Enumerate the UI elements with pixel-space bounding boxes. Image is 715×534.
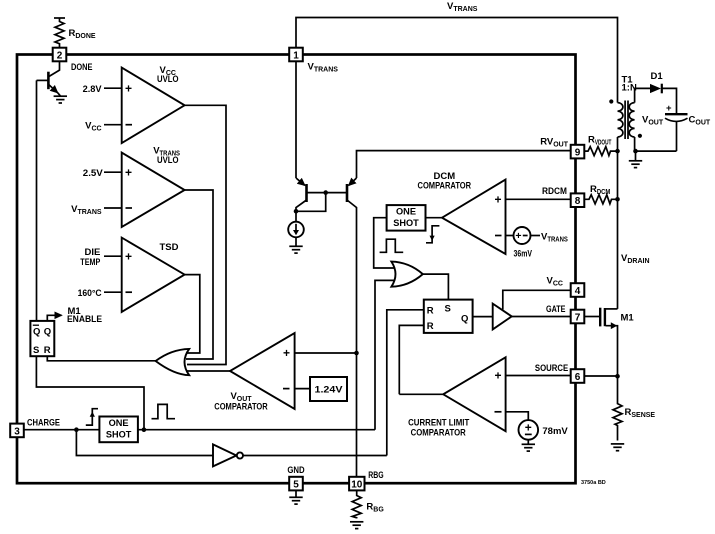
transistor Q3 (right PNP) — [346, 184, 349, 202]
inverter U11 — [213, 444, 236, 466]
ground under RBG — [350, 522, 363, 529]
wire VTRANS UVLO output — [185, 190, 213, 359]
svg-text:VCC: VCC — [547, 276, 563, 288]
wire latch2 R2 input from current limit comparator — [399, 325, 424, 394]
svg-text:Q: Q — [44, 327, 51, 338]
falling-edge symbol — [426, 226, 439, 243]
wire one-shot output to OR2 riser — [138, 429, 375, 431]
svg-text:S: S — [33, 345, 39, 356]
wire 160C stub — [104, 291, 123, 293]
wire VCC stub — [104, 124, 123, 126]
wire latch Q to M1 ENABLE arrow — [47, 315, 61, 321]
wire VCC UVLO output — [185, 105, 226, 364]
wire secondary top to D1 — [635, 88, 650, 102]
latch U8 gate-drive SR latch — [424, 300, 473, 333]
wire pin2 to Q1 collector — [49, 61, 60, 76]
svg-text:ONE: ONE — [109, 418, 129, 429]
svg-text:VOUT: VOUT — [642, 115, 664, 127]
ground secondary — [629, 161, 642, 168]
svg-text:+: + — [125, 165, 132, 179]
svg-text:3750a BD: 3750a BD — [581, 480, 606, 486]
wire CL + input to pin6 — [503, 375, 571, 377]
svg-text:160°C: 160°C — [78, 288, 102, 299]
wire driver VCC tap to pin4 — [503, 290, 571, 309]
ground under RSENSE — [611, 444, 624, 451]
svg-text:10: 10 — [351, 480, 363, 491]
transformer T1 secondary winding — [629, 103, 634, 137]
svg-text:9: 9 — [575, 148, 581, 159]
pin 7 — [571, 310, 585, 324]
svg-text:RBG: RBG — [368, 470, 383, 481]
svg-text:+: + — [515, 230, 521, 242]
svg-text:RBG: RBG — [366, 502, 384, 514]
svg-text:8: 8 — [575, 196, 581, 207]
svg-text:ENABLE: ENABLE — [67, 314, 102, 325]
svg-text:5: 5 — [293, 480, 299, 491]
resistor RDCM — [585, 195, 618, 204]
svg-text:VDRAIN: VDRAIN — [621, 253, 650, 265]
T1 phase dot primary — [609, 99, 613, 103]
svg-text:+: + — [495, 368, 502, 382]
transistor Q2 (left PNP) — [305, 184, 308, 202]
wire TSD output — [185, 275, 200, 353]
wire VOUT comp - input to 1.24V — [293, 388, 310, 390]
transistor Q1 DONE (NPN) — [47, 72, 50, 90]
svg-text:36mV: 36mV — [514, 249, 533, 260]
svg-text:M1: M1 — [621, 313, 635, 324]
op-amp U2 VTRANS UVLO comparator — [122, 153, 185, 227]
svg-text:1.24V: 1.24V — [315, 385, 344, 396]
ground under 78mV — [522, 444, 535, 451]
junction VOUT comp tap on Q3 collector line — [354, 351, 359, 356]
svg-text:ONE: ONE — [396, 207, 416, 218]
svg-text:+: + — [125, 81, 132, 95]
wire OR1 output to latch R — [47, 356, 155, 361]
resistor RVDOUT — [585, 147, 618, 156]
ground under Q1 — [54, 96, 67, 103]
pin 3 — [10, 424, 24, 438]
rising-edge symbol — [86, 409, 98, 425]
pin 2 — [53, 48, 67, 62]
voltage source V2 78mV — [519, 420, 539, 440]
or-gate G2 (2-input, points right) — [391, 262, 422, 287]
svg-text:TSD: TSD — [160, 242, 179, 253]
wire DIE TEMP stub — [104, 255, 123, 257]
op-amp U1 VCC UVLO comparator — [122, 68, 185, 144]
wire DCM one-shot output to OR2 top input — [374, 218, 398, 268]
pin 8 — [571, 193, 585, 207]
wire latch S input from charge one-shot — [36, 356, 144, 430]
wire VTRANS stub — [104, 207, 123, 209]
svg-text:SHOT: SHOT — [106, 429, 132, 440]
svg-text:2.8V: 2.8V — [83, 84, 103, 95]
resistor RBG — [352, 490, 361, 518]
wire VOUT comp output to OR1 — [186, 370, 230, 372]
wire DCM - input to 36mV source — [503, 235, 514, 237]
svg-text:R: R — [44, 345, 51, 356]
svg-text:1: 1 — [293, 51, 299, 62]
buffer U9 gate driver — [493, 304, 512, 330]
reference box 1.24V — [310, 377, 347, 401]
pin 9 — [571, 145, 585, 159]
svg-text:CHARGE: CHARGE — [27, 417, 60, 428]
svg-text:SHOT: SHOT — [393, 218, 419, 229]
pulse symbol CHARGE — [152, 404, 176, 418]
transistor M1 (NMOS) — [585, 316, 601, 318]
latch U4 M1-enable SR latch — [30, 321, 54, 356]
svg-text:VTRANS: VTRANS — [308, 62, 339, 74]
wire CL - input to 78mV source — [503, 412, 528, 420]
svg-text:+: + — [525, 421, 532, 435]
wire CL output to latch2 R2 riser — [399, 393, 443, 395]
wire pin1 down into chip — [295, 61, 297, 178]
ground under pin5 — [289, 497, 302, 504]
wire Q2/Q3 common base — [307, 192, 348, 194]
wire latch2 Q to driver — [473, 316, 493, 318]
svg-text:VTRANS: VTRANS — [447, 1, 478, 13]
svg-text:RVOUT: RVOUT — [540, 137, 569, 149]
svg-text:RVDOUT: RVDOUT — [588, 135, 612, 147]
current source I1 — [295, 211, 297, 221]
svg-text:Q: Q — [461, 313, 468, 324]
svg-text:GND: GND — [287, 465, 304, 476]
diode D1 — [650, 84, 661, 93]
IC boundary box — [17, 55, 576, 484]
wire VTRANS top rail from pin 1 to transformer — [296, 18, 618, 103]
svg-text:RDCM: RDCM — [542, 186, 567, 197]
one-shot U10 (CHARGE) — [99, 417, 137, 443]
wire driver output to pin7 GATE — [512, 316, 571, 318]
pin 4 — [571, 283, 585, 297]
svg-text:+: + — [125, 249, 132, 263]
voltage source V1 36mV — [514, 227, 531, 244]
wire VDRAIN vertical — [617, 137, 619, 309]
junction RVDOUT/VDRAIN — [615, 149, 620, 154]
wire pin6 to M1 source node — [585, 375, 618, 377]
svg-text:COMPARATOR: COMPARATOR — [411, 428, 466, 439]
svg-text:Q: Q — [33, 327, 40, 338]
ground under I1 — [289, 246, 302, 253]
pin 5 GND — [289, 477, 303, 491]
wire inverter output to latch2 R1 riser — [243, 455, 387, 457]
one-shot U6 (DCM) — [387, 205, 426, 231]
svg-text:+: + — [283, 346, 290, 360]
svg-text:UVLO: UVLO — [157, 74, 179, 85]
op-amp U3 TSD comparator — [122, 238, 185, 312]
svg-text:R: R — [427, 321, 434, 332]
svg-text:RDCM: RDCM — [590, 184, 611, 196]
svg-text:6: 6 — [575, 372, 581, 383]
wire charge line down to inverter — [76, 430, 213, 456]
wire RVOUT pin9 to Q3 emitter — [357, 151, 571, 178]
pin 6 — [571, 369, 585, 383]
pin 1 — [289, 48, 303, 62]
svg-text:UVLO: UVLO — [157, 155, 179, 166]
svg-text:78mV: 78mV — [542, 426, 568, 437]
svg-text:VTRANS: VTRANS — [71, 204, 102, 216]
svg-text:2: 2 — [57, 51, 63, 62]
svg-text:R: R — [427, 305, 434, 316]
transformer T1 primary winding — [618, 103, 623, 137]
wire DCM + input to pin8 — [503, 198, 571, 200]
wire Q1 base down to latch Qbar — [36, 80, 38, 321]
T1 phase dot secondary — [638, 134, 642, 138]
svg-text:3: 3 — [14, 426, 20, 437]
svg-text:COUT: COUT — [689, 115, 711, 127]
svg-text:D1: D1 — [651, 71, 664, 82]
wire 2.8V stub — [104, 87, 123, 89]
svg-text:RDONE: RDONE — [69, 28, 96, 40]
resistor RDONE — [54, 17, 65, 19]
svg-text:DONE: DONE — [71, 62, 93, 73]
wire secondary bottom to ground node — [635, 137, 677, 151]
svg-text:COMPARATOR: COMPARATOR — [214, 402, 268, 413]
svg-text:+: + — [666, 103, 672, 114]
wire base to Q2 collector (diode connection) — [296, 193, 326, 212]
svg-text:VTRANS: VTRANS — [541, 232, 568, 244]
svg-text:RSENSE: RSENSE — [625, 407, 656, 419]
junction RDCM/VDRAIN — [615, 197, 620, 202]
wire pin3 CHARGE to one-shot — [24, 429, 100, 431]
wire D1 cathode to COUT top — [662, 88, 677, 113]
svg-text:TEMP: TEMP — [80, 257, 101, 268]
svg-text:+: + — [495, 192, 502, 206]
svg-text:VCC: VCC — [85, 121, 101, 133]
junction secondary ground node — [633, 149, 638, 154]
pin 10 RBG — [349, 477, 364, 491]
svg-text:COMPARATOR: COMPARATOR — [418, 180, 472, 191]
svg-text:7: 7 — [575, 313, 581, 324]
svg-text:4: 4 — [575, 286, 581, 297]
transformer T1 core — [624, 101, 626, 140]
svg-text:GATE: GATE — [546, 304, 566, 315]
svg-text:2.5V: 2.5V — [83, 168, 104, 179]
wire charge one-shot line to OR2 bottom input — [375, 280, 398, 429]
or-gate G1 fault OR (4-input, points left) — [156, 349, 190, 375]
wire VOUT comp + input tap — [293, 352, 357, 354]
wire DCM comparator output to one-shot — [426, 217, 443, 219]
pulse symbol DCM — [380, 239, 404, 252]
wire latch2 R1 input from inverter — [387, 310, 424, 456]
wire 2.5V stub — [104, 171, 123, 173]
svg-text:S: S — [445, 304, 451, 315]
wire OR2 output to latch2 S — [423, 274, 449, 300]
svg-text:SOURCE: SOURCE — [535, 363, 568, 374]
resistor RSENSE — [613, 376, 622, 440]
